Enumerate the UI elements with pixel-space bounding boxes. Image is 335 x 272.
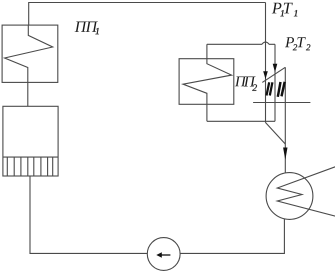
boiler grate divider	[3, 156, 58, 158]
pump arrow shaft	[161, 254, 170, 256]
arrowhead reheated steam into turbine (line B)	[273, 64, 278, 73]
turbine stage hatch group 2	[278, 82, 285, 97]
reheater box PP2	[179, 59, 234, 105]
condenser circle	[266, 173, 313, 220]
label P1T1	[272, 3, 297, 17]
wire boiler to pump (bottom left)	[30, 176, 147, 253]
grate hatch lines	[7, 157, 52, 176]
wire pump to condenser (bottom right)	[180, 219, 284, 253]
label P2T2	[285, 37, 310, 50]
pump circle	[147, 238, 180, 271]
wire line A vertical (fresh steam down to turbine)	[265, 3, 267, 123]
wire top (boiler outlet to turbine, P1T1 line)	[29, 3, 266, 26]
arrowhead turbine exhaust to condenser	[283, 148, 287, 161]
arrowhead fresh steam into turbine (line A)	[263, 71, 268, 79]
superheater box PP1	[2, 25, 58, 82]
turbine right edge + exhaust to condenser	[284, 67, 286, 173]
wire line B (reheated steam return, loop right side)	[274, 44, 276, 121]
label PP2	[235, 76, 257, 90]
turbine shaft line	[253, 102, 310, 104]
turbine stage hatch group 1	[267, 82, 273, 95]
reheater pipe + zigzag coil in PP2	[183, 44, 232, 121]
turbine bottom diagonal	[266, 123, 286, 145]
label PP1	[75, 22, 99, 35]
pump flow arrowhead	[156, 252, 162, 258]
turbine top edge	[262, 67, 285, 82]
boiler box	[3, 106, 58, 176]
reheat loop bottom edge	[207, 120, 275, 122]
cooling water zigzag through condenser	[277, 167, 335, 217]
reheat loop top edge with hop over line A	[207, 42, 275, 44]
coil zigzag in PP1 + pipe down to boiler	[5, 25, 53, 106]
